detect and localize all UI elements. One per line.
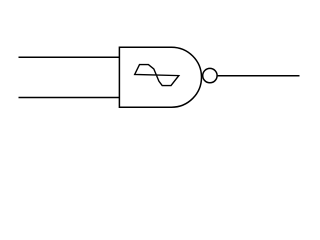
inversion bubble on output bbox=[203, 68, 217, 82]
NAND gate U1 body bbox=[119, 47, 201, 107]
wire: input A (top) bbox=[19, 56, 121, 58]
sine/hysteresis symbol inside gate bbox=[135, 65, 179, 86]
wire: output bbox=[218, 75, 300, 77]
wire: input B (bottom) bbox=[19, 97, 121, 99]
